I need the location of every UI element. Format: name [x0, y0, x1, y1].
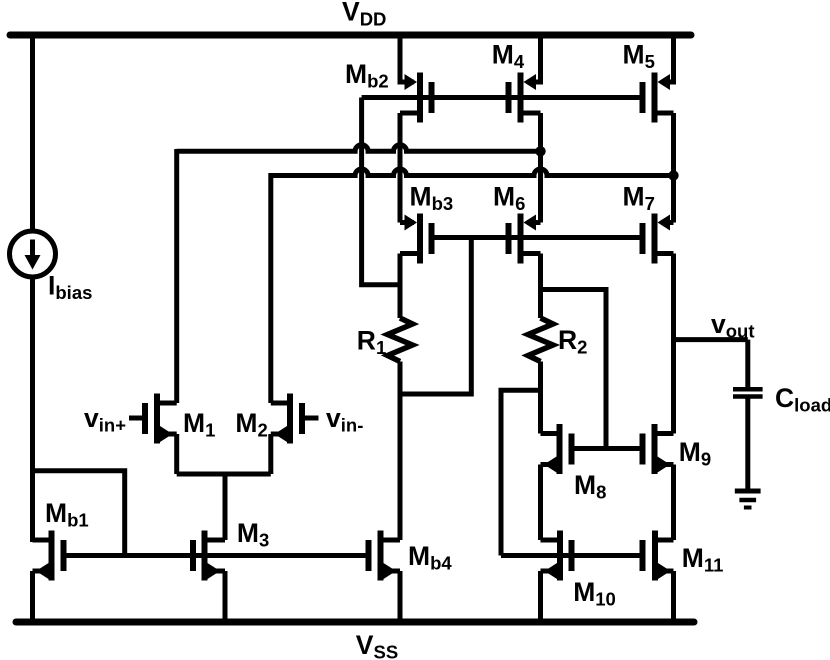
wire M3 drain to tail node — [223, 474, 228, 540]
tail wire — [177, 472, 271, 477]
wire Mb2 drain to Mb3 source — [398, 113, 403, 223]
svg-text:VSS: VSS — [356, 630, 398, 660]
wire M11 drain to M9 source — [671, 465, 676, 541]
wire R2 bottom branch to M10 M11 gates — [501, 390, 541, 555]
wire M10 source to VSS — [538, 571, 543, 622]
M8 M9 gate lead — [572, 446, 643, 451]
svg-text:M9: M9 — [679, 437, 711, 470]
svg-text:M2: M2 — [235, 408, 267, 441]
wire VDD to Mb2 source — [400, 35, 414, 82]
svg-text:M11: M11 — [682, 543, 724, 576]
wire M4 drain to M6 source — [538, 113, 543, 223]
VSS rail — [16, 619, 694, 626]
wire VDD to M4 source — [527, 35, 541, 82]
transistor M7 — [640, 214, 674, 264]
resistor R1 — [388, 318, 413, 362]
svg-text:vin+: vin+ — [84, 403, 126, 436]
wire Cload to ground — [745, 399, 750, 492]
current source Ibias — [10, 231, 56, 277]
transistor Mb3 — [400, 214, 435, 264]
svg-text:M4: M4 — [492, 40, 525, 73]
transistor M10 — [541, 531, 575, 581]
wire M2 drain to lower bus — [268, 173, 273, 403]
bottom gate bus Mb1 M3 Mb4 — [62, 553, 369, 558]
svg-text:M3: M3 — [237, 518, 269, 551]
transistor M2 — [271, 394, 319, 444]
svg-text:Cload: Cload — [775, 383, 830, 416]
VDD rail — [10, 32, 691, 39]
wire M11 source to VSS — [671, 571, 676, 622]
svg-text:M8: M8 — [574, 470, 606, 503]
capacitor Cload — [733, 389, 763, 396]
wire Mb1 source to VSS — [30, 571, 35, 622]
wire M1 source to tail — [174, 434, 179, 474]
transistor M1 — [129, 394, 177, 444]
svg-text:M1: M1 — [183, 408, 215, 441]
wire M6 drain to R2 — [538, 254, 543, 319]
transistor M11 — [640, 531, 674, 581]
svg-text:R2: R2 — [558, 325, 587, 358]
wire Ibias branch to Mb1 gate bus — [33, 471, 125, 556]
transistor M9 — [640, 424, 674, 474]
svg-text:Mb2: Mb2 — [345, 59, 389, 92]
svg-text:Mb1: Mb1 — [45, 498, 89, 531]
wire Mb3 drain to R1 — [398, 254, 403, 319]
wire R1 bottom to Mb4 drain — [398, 362, 403, 541]
transistor M8 — [541, 424, 575, 474]
svg-text:Mb3: Mb3 — [410, 182, 454, 215]
svg-text:vout: vout — [711, 309, 755, 342]
svg-text:M7: M7 — [623, 182, 655, 215]
wire M3 source to VSS — [223, 571, 228, 622]
wire M7 drain to M9 drain — [671, 254, 676, 434]
wire VDD to M5 source — [661, 35, 674, 82]
transistor Mb4 — [366, 531, 401, 581]
wire M9 drain to vout — [671, 340, 676, 434]
resistor R2 — [528, 318, 553, 362]
svg-text:M5: M5 — [623, 40, 655, 73]
upper bus wire with hops — [177, 145, 541, 152]
wire top gate bus to Mb3 drain — [362, 98, 400, 285]
wire M10 drain to M8 source — [538, 465, 543, 541]
transistor Mb2 — [400, 73, 435, 123]
lower bus wire with hops — [271, 169, 674, 175]
transistor M4 — [506, 73, 541, 123]
transistor Mb1 — [33, 531, 67, 581]
svg-text:Mb4: Mb4 — [408, 541, 452, 574]
M10 M11 gate bus — [501, 553, 643, 558]
wire VDD to Ibias — [30, 35, 35, 232]
ground — [735, 491, 761, 508]
transistor M5 — [640, 73, 674, 123]
wire M5 drain to M7 source — [671, 113, 676, 223]
top pmos gate bus — [362, 95, 643, 100]
svg-text:Ibias: Ibias — [48, 271, 92, 304]
wire R2 top branch to M8 M9 gates — [541, 290, 607, 449]
svg-text:vin-: vin- — [326, 403, 363, 436]
wire R2 bottom to M8 drain — [538, 362, 543, 434]
transistor M6 — [506, 214, 541, 264]
node dot upper bus M4 drain — [535, 146, 545, 156]
wire M2 source to tail — [268, 434, 273, 474]
wire Ibias to Mb1 drain — [30, 276, 35, 542]
svg-text:VDD: VDD — [342, 0, 386, 29]
transistor M3 — [190, 531, 225, 581]
vout wire — [674, 337, 748, 342]
wire Mb4 source to VSS — [398, 571, 403, 622]
svg-text:M6: M6 — [493, 182, 525, 215]
row2 gate bus Mb3 M6 M7 — [431, 235, 643, 240]
svg-text:R1: R1 — [357, 326, 386, 359]
wire M1 drain to upper bus — [174, 149, 179, 403]
wire vout to Cload — [745, 340, 750, 388]
node dot lower bus M5 drain — [668, 170, 678, 180]
svg-text:M10: M10 — [573, 577, 616, 610]
wire row2 gate bus to R1 bottom — [400, 238, 471, 395]
